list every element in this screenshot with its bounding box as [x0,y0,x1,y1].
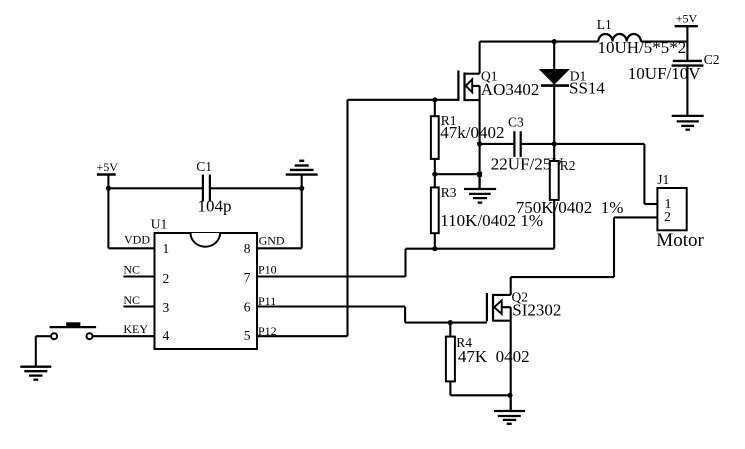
svg-text:P10: P10 [258,262,277,276]
resistor R3 [434,174,436,187]
inductor L1 [598,34,641,42]
wire ground junction to pin 8 (GND) [257,188,302,248]
svg-text:VDD: VDD [124,233,150,247]
capacitor C1 [203,175,210,202]
resistor R1 [431,116,439,159]
ground (below button) [20,367,51,380]
svg-text:R2: R2 [560,158,576,173]
junction [106,186,111,191]
junction R3 bottom [432,246,437,251]
svg-text:+5V: +5V [97,160,119,174]
svg-text:7: 7 [244,270,251,285]
svg-text:2: 2 [664,210,671,225]
junction [299,186,304,191]
power +5V (left) [97,175,116,189]
wire button to KEY pin 4 [92,335,154,337]
svg-text:104p: 104p [198,197,232,216]
wire P10 net (pin 7 to R3/R2 bottom) [257,249,554,277]
junction R4 top [448,320,453,325]
svg-text:6: 6 [244,300,251,315]
junction Q2 source / ground [507,393,512,398]
svg-text:J1: J1 [657,172,669,187]
ground (inverted earth, top middle) [286,161,318,189]
wire +5V to C1 [108,187,202,189]
junction D1 anode / rail [552,39,557,44]
wire button to ground [36,336,51,367]
svg-text:3: 3 [163,300,170,315]
svg-text:U1: U1 [151,217,168,232]
svg-text:10UH/5*5*2: 10UH/5*5*2 [598,38,687,57]
wire output node to J1 pin 1 [644,144,657,204]
junction [477,172,482,177]
svg-text:+5V: +5V [676,11,698,25]
IC U1 [155,233,258,349]
svg-text:C3: C3 [508,114,524,129]
capacitor C2 [672,61,704,116]
svg-text:5: 5 [244,328,251,343]
svg-text:GND: GND [259,233,285,247]
svg-text:1: 1 [163,241,170,256]
wire R3 bottom lead [434,233,436,249]
svg-text:NC: NC [123,293,140,307]
ground (below Q1 source / R1R3 row) [464,174,496,202]
wire +5V to pin 1 (VDD) [108,188,154,248]
resistor R2 [553,144,555,161]
push button KEY switch [50,322,97,339]
connector J1 (Motor) [657,188,686,230]
capacitor C3 [480,131,645,157]
junction R1 top [432,97,437,102]
svg-text:4: 4 [163,328,170,343]
svg-text:750K/0402 1%: 750K/0402 1% [516,198,624,217]
svg-text:NC: NC [123,263,140,277]
wire P11 net (pin 6 to Q2 gate) [257,307,487,323]
wire R1R3 junction to ground stem [435,173,480,175]
svg-text:AO3402: AO3402 [481,80,540,99]
wire P12 net (pin 5 to Q1 gate) [257,100,458,336]
svg-text:C2: C2 [704,52,720,67]
power +5V (right) [675,26,698,61]
ground (below C2) [672,116,704,130]
wire R1 top lead [434,100,436,116]
transistor Q2 (SI2302) [487,293,511,395]
wire R4 top lead [449,323,451,337]
junction C3 / R2 / D1 [552,141,557,146]
wire C1 to ground junction [210,187,302,189]
wire R2 bottom lead [553,200,555,249]
junction [432,172,437,177]
wire R1 bottom to ground row [434,159,436,174]
wire R4 bottom to Q2 source [450,381,510,395]
diode D1 (SS14) [539,42,570,144]
resistor R4 [446,337,455,382]
svg-text:47K 0402: 47K 0402 [458,347,530,366]
svg-text:R3: R3 [441,185,457,200]
wire switch-node rail [480,41,599,43]
svg-text:SS14: SS14 [569,79,605,98]
svg-text:2: 2 [163,271,170,286]
svg-text:L1: L1 [597,17,612,32]
svg-text:Motor: Motor [656,230,704,251]
svg-text:SI2302: SI2302 [512,300,561,319]
transistor Q1 (AO3402) [458,42,479,175]
svg-text:8: 8 [244,241,251,256]
wire L1 to +5V [641,41,688,43]
wire NC pin 3 stub [123,305,154,307]
svg-text:KEY: KEY [123,322,148,336]
svg-text:47k/0402: 47k/0402 [440,123,504,142]
wire NC pin 2 stub [123,275,154,277]
ground (below Q2) [494,395,525,424]
svg-text:C1: C1 [196,159,212,174]
svg-text:10UF/10V: 10UF/10V [628,64,701,83]
junction Q1 source / C3 [477,141,482,146]
wire J1 pin 2 to Q2 drain [511,217,658,295]
